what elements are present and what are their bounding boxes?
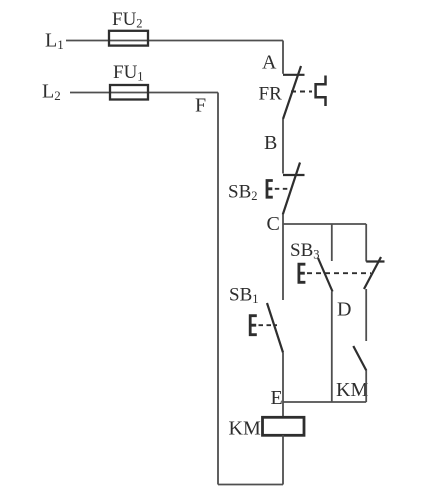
svg-text:KM: KM <box>229 418 261 440</box>
svg-text:B: B <box>264 132 277 154</box>
fuse FU1 <box>110 85 148 100</box>
wire SB1 to node E <box>282 353 284 403</box>
wire SB2 to node C <box>282 214 284 224</box>
svg-text:F: F <box>195 95 206 117</box>
wire node C bus <box>283 223 366 225</box>
wire coil to bottom <box>282 435 284 485</box>
pushbutton SB3 (NC contact) <box>364 257 385 289</box>
wire KM contact to node E <box>365 370 367 402</box>
svg-text:FR: FR <box>259 84 283 105</box>
svg-text:L1: L1 <box>45 30 64 53</box>
wire right vertical L1 down to FR <box>282 41 284 74</box>
pushbutton SB3 (NO contact) <box>318 258 333 292</box>
wire node E bus <box>283 401 366 403</box>
svg-text:D: D <box>337 299 351 321</box>
svg-text:A: A <box>262 52 277 74</box>
svg-text:E: E <box>271 387 283 409</box>
wire FR to SB2 <box>282 119 284 174</box>
wire L2 horizontal <box>70 92 218 94</box>
svg-text:C: C <box>267 213 280 235</box>
wire C to SB3 NO branch <box>331 224 333 261</box>
contact FR (thermal relay NC) <box>283 66 326 119</box>
svg-text:L2: L2 <box>42 81 61 104</box>
svg-text:SB2: SB2 <box>228 182 258 204</box>
wire bottom return <box>218 484 283 486</box>
wire SB3 NO down to node E <box>331 292 333 403</box>
svg-text:SB1: SB1 <box>229 285 259 307</box>
pushbutton SB2 (NC stop button) <box>267 163 305 215</box>
wire C to SB3 NC branch <box>365 224 367 262</box>
svg-text:KM: KM <box>336 379 368 401</box>
svg-text:FU1: FU1 <box>113 62 144 84</box>
actuator SB3 <box>299 264 306 282</box>
dashed link SB3 <box>307 272 371 274</box>
svg-text:SB3: SB3 <box>290 240 320 262</box>
wire C down to SB1 <box>282 224 284 300</box>
svg-text:FU2: FU2 <box>112 9 143 31</box>
wire F riser <box>217 93 219 485</box>
wire L1 horizontal <box>66 40 283 42</box>
wire node E to coil <box>282 402 284 418</box>
wire SB3 NC to KM contact <box>365 289 367 341</box>
pushbutton SB1 (NO start button) <box>250 303 283 353</box>
contact KM (NO auxiliary) <box>353 346 366 371</box>
coil KM <box>263 417 305 435</box>
fuse FU2 <box>109 31 148 46</box>
